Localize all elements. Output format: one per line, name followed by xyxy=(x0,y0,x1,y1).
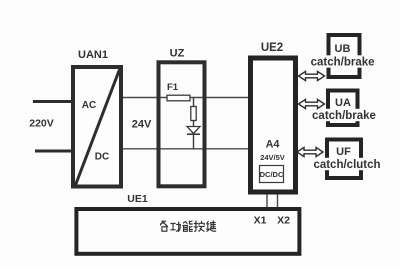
load block UB xyxy=(311,35,375,77)
double arrow UE2 to UF xyxy=(297,147,323,156)
svg-text:UAN1: UAN1 xyxy=(78,49,108,61)
svg-text:F1: F1 xyxy=(167,82,179,93)
char 功 xyxy=(171,222,181,231)
double arrow UE2 to UA xyxy=(299,99,325,108)
svg-text:DC/DC: DC/DC xyxy=(260,170,284,179)
fuse F1 xyxy=(167,95,190,101)
svg-text:A4: A4 xyxy=(266,139,280,151)
char 各 xyxy=(160,221,167,231)
svg-text:DC: DC xyxy=(95,152,109,163)
svg-text:24V/5V: 24V/5V xyxy=(260,153,285,162)
double arrow UE2 to UB xyxy=(299,71,325,80)
char 键 xyxy=(207,221,216,231)
diagonal AC/DC divider xyxy=(76,70,120,186)
keypad UE1 box xyxy=(76,209,299,254)
wire 220V top input xyxy=(33,100,72,103)
svg-text:UF: UF xyxy=(336,146,351,158)
pin X2 stub wire xyxy=(277,195,279,208)
load block UA xyxy=(312,91,377,126)
load block UF xyxy=(313,140,380,179)
zener diode in UZ xyxy=(187,127,200,135)
svg-text:UA: UA xyxy=(335,97,351,109)
power converter UAN1 box xyxy=(73,67,121,187)
svg-text:X1: X1 xyxy=(254,215,267,227)
voltage regulator UZ box xyxy=(159,62,205,186)
svg-text:catch/brake: catch/brake xyxy=(311,57,375,69)
svg-text:UE2: UE2 xyxy=(261,42,283,54)
svg-text:catch/clutch: catch/clutch xyxy=(313,159,380,171)
resistor in UZ xyxy=(191,107,196,121)
char 能 xyxy=(183,221,193,231)
wire diode to bottom rail xyxy=(193,135,195,149)
wire 220V bottom input xyxy=(35,150,72,153)
pin X1 stub wire xyxy=(266,195,268,208)
controller UE2 box xyxy=(251,58,296,192)
svg-text:UE1: UE1 xyxy=(127,193,148,205)
svg-text:X2: X2 xyxy=(277,215,290,227)
svg-text:catch/brake: catch/brake xyxy=(312,110,376,122)
svg-text:220V: 220V xyxy=(29,118,54,130)
wire branch down from fuse node xyxy=(193,98,195,107)
wire 24V bottom (UAN1 to UE2 through UZ) xyxy=(121,148,250,150)
svg-text:UB: UB xyxy=(335,43,351,55)
svg-text:24V: 24V xyxy=(132,119,152,131)
svg-text:UZ: UZ xyxy=(170,48,185,60)
text 各功能按键 (function keys) drawn as strokes xyxy=(160,221,215,231)
char 按 xyxy=(194,221,204,231)
wire resistor to diode xyxy=(193,121,195,127)
DC/DC converter box xyxy=(260,166,284,183)
wire 24V top (UAN1 to UE2 through UZ) xyxy=(121,97,250,99)
svg-text:AC: AC xyxy=(82,100,96,111)
